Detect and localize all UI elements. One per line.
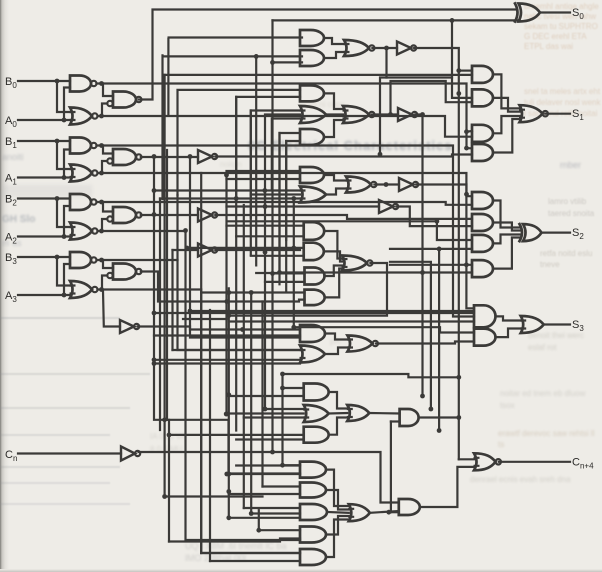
wire N2 output xyxy=(141,214,198,216)
wire C2f out xyxy=(370,511,399,513)
NAND gate U0b second-level xyxy=(107,92,141,108)
node A1 junction xyxy=(62,175,67,180)
node mesh dot4 xyxy=(280,463,285,468)
wire B0 input xyxy=(18,80,70,82)
AND gate C2b xyxy=(300,483,326,498)
AND gate G5a xyxy=(300,325,325,342)
node P0 tap AND3 xyxy=(464,129,469,134)
wire C2e in1 xyxy=(201,552,300,554)
node G4d in1 tap xyxy=(226,290,231,295)
AND gate S1a xyxy=(472,66,493,83)
wire IC input xyxy=(173,249,199,251)
wire S3b in1 xyxy=(294,327,474,332)
AND gate G2a xyxy=(300,85,324,101)
node C1b tap2 xyxy=(224,412,229,417)
node IC input tap xyxy=(185,246,190,251)
wire G2e out xyxy=(415,115,422,397)
wire Cn-bar bus xyxy=(139,452,399,503)
wire IC output xyxy=(215,249,300,251)
wire G2c in1 xyxy=(280,133,301,273)
node Cnbar S1 tap xyxy=(450,18,455,23)
wire C1b in1 xyxy=(265,408,304,410)
node NOR3 output junction xyxy=(99,287,104,292)
svg-text:A1: A1 xyxy=(5,173,17,187)
wire G3b in2 xyxy=(251,193,300,195)
wire S2c out xyxy=(493,235,520,244)
wire riser x167 xyxy=(166,150,168,420)
wire box left riser xyxy=(168,420,170,542)
wire riser x177b xyxy=(176,195,178,260)
svg-text:S3: S3 xyxy=(572,319,584,333)
wire riser x201 xyxy=(200,173,202,553)
wire G1b in2 xyxy=(273,61,303,63)
node branch dot xyxy=(167,433,172,438)
wire S1d in1 xyxy=(467,147,473,149)
NAND gate bit3 xyxy=(70,252,97,268)
node G5b in2 tap xyxy=(152,357,157,362)
svg-text:S1: S1 xyxy=(572,108,584,122)
AND gate C1e xyxy=(400,409,419,426)
inverter ID xyxy=(120,320,139,333)
wire G4a to NOR xyxy=(324,231,342,259)
node mesh dot1 xyxy=(224,299,229,304)
svg-text:B0: B0 xyxy=(5,76,17,90)
wire N1 output xyxy=(141,156,198,158)
wire G2 bus xyxy=(102,231,301,540)
wire G5b in2 xyxy=(154,359,300,361)
node S2d tap2 xyxy=(277,270,282,275)
inverter IC xyxy=(198,244,217,257)
wire S3a out xyxy=(496,316,521,320)
NAND gate bit0 xyxy=(70,76,97,92)
node x439 top xyxy=(437,247,442,252)
wire N3 output xyxy=(141,272,305,302)
wire B3 to NOR xyxy=(57,257,70,286)
wire Cn input xyxy=(18,452,121,454)
wire G2a in1 xyxy=(178,90,301,195)
wire A2 to NAND xyxy=(64,206,70,237)
NOR gate G2d xyxy=(343,106,375,123)
node S1d tap xyxy=(464,146,469,151)
AND gate S3b xyxy=(474,329,496,346)
wire G1b to NOR xyxy=(324,52,344,58)
node tap419 xyxy=(162,417,167,422)
wire C2b to OR xyxy=(326,490,349,510)
wire riser x243 xyxy=(243,205,245,508)
svg-text:Cn+4: Cn+4 xyxy=(572,457,594,471)
node G3b tap3 xyxy=(291,196,296,201)
wire riser x160 xyxy=(159,199,161,431)
AND gate C2e xyxy=(300,549,326,565)
wire C1b to OR xyxy=(329,412,348,415)
wire G3a in2 xyxy=(227,178,301,180)
node ID output tap xyxy=(240,327,245,332)
wire C1c to OR xyxy=(329,418,348,435)
wire G2b in3 xyxy=(272,119,300,190)
wire riser x229 xyxy=(228,288,230,518)
AND gate G1b xyxy=(300,50,324,66)
NAND gate bit2 xyxy=(70,194,97,210)
wire G3a in1 xyxy=(227,171,301,175)
node C2c tap2 xyxy=(226,515,231,520)
NOR gate G5c xyxy=(347,336,378,352)
wire S3a in2 xyxy=(229,320,474,322)
node C1a tap2 xyxy=(226,392,231,397)
wire N1 riser xyxy=(190,157,300,338)
wire A3 to NAND xyxy=(64,264,70,295)
wire G0 bus xyxy=(102,116,473,137)
wire G4c to NOR xyxy=(325,266,343,277)
node B3 junction xyxy=(55,255,60,260)
wire NOR3 out to NAND2 xyxy=(98,276,108,290)
wire IB output xyxy=(215,215,472,219)
AND gate S2c xyxy=(472,235,493,252)
NOR gate bit0 xyxy=(70,108,98,125)
wire C2e to OR xyxy=(326,520,349,558)
node C2f junction xyxy=(386,510,391,515)
inverter G2e xyxy=(398,108,417,121)
wire C2c in2 xyxy=(251,512,300,514)
svg-text:B1: B1 xyxy=(5,136,17,150)
NOR gate bit1 xyxy=(70,165,98,182)
wire sum3 input line2 xyxy=(154,312,474,314)
wire riser x265 xyxy=(264,191,266,410)
wire riser x172 xyxy=(171,250,173,350)
XOR gate S0out xyxy=(515,4,540,22)
wire S0 second input xyxy=(273,19,518,21)
OR gate C1b xyxy=(303,405,329,422)
wire NAND0 out to NAND2 xyxy=(97,84,114,97)
wire A0 input xyxy=(18,119,70,121)
wire G1 bus xyxy=(102,173,475,308)
wire B3 input xyxy=(18,256,70,258)
wire C1e out xyxy=(419,416,459,418)
node G4e out tap xyxy=(226,313,231,318)
node S1 and2 tap xyxy=(456,91,461,96)
AND gate S3a xyxy=(474,305,496,327)
wire S2c in2b xyxy=(390,248,472,250)
wire A0 to NAND xyxy=(64,88,70,121)
NOR gate G4e xyxy=(342,256,373,271)
wire NOR Cn4 top input xyxy=(459,458,474,460)
node mesh dot5 xyxy=(226,472,231,477)
svg-text:A3: A3 xyxy=(5,290,17,304)
wire S1b out xyxy=(493,98,520,112)
AND gate C1c xyxy=(304,427,329,443)
wire C1a in1 xyxy=(283,387,304,389)
wire C2g in2 xyxy=(389,511,399,513)
node C2c tap xyxy=(249,511,254,516)
node B2 junction xyxy=(55,196,60,201)
wire G2b in2 xyxy=(265,115,300,209)
wire G4a in2 xyxy=(236,235,304,237)
wire IF output xyxy=(396,207,472,227)
wire C2c in3 xyxy=(229,517,300,519)
wire NAND2 out to NAND2 xyxy=(97,202,114,212)
node IF tap xyxy=(263,204,268,209)
inverter IA xyxy=(198,150,217,163)
inverter IB xyxy=(198,209,217,222)
node Cnbar riser junction xyxy=(270,450,275,455)
wire riser x431 xyxy=(390,262,431,409)
NAND gate U1b second-level xyxy=(107,149,141,165)
NOR gate bit3 xyxy=(70,281,98,298)
NAND gate bit1 xyxy=(70,138,97,154)
node G2e out tap xyxy=(420,112,425,117)
wire C1c in2 xyxy=(236,438,304,440)
node NOR0 output junction xyxy=(99,114,104,119)
wire G1b in1 xyxy=(163,55,302,57)
NOR gate G3c xyxy=(346,177,377,193)
wire riser x210 xyxy=(209,310,211,561)
node N2 out tap xyxy=(152,212,157,217)
wire S2b out xyxy=(493,223,520,231)
wire G4c in2 xyxy=(265,281,305,283)
wire NOR1 out to NAND2 xyxy=(98,161,108,173)
node x458 tap417 xyxy=(456,415,461,420)
wire C2d in1 xyxy=(259,529,300,531)
wire mesh h465 xyxy=(283,464,301,466)
wire Cn-bar riser xyxy=(271,20,273,452)
wire G1 branch a xyxy=(387,48,473,98)
node C1a tap xyxy=(280,386,285,391)
node N1 junction xyxy=(188,154,193,159)
svg-text:S0: S0 xyxy=(572,7,584,21)
node NAND2 output junction xyxy=(99,200,104,205)
OR gate G2b xyxy=(300,106,327,123)
wire C2g out xyxy=(420,467,474,507)
wire S3 output xyxy=(544,323,570,325)
wire G2c to NOR xyxy=(324,120,343,137)
NAND gate U3b second-level xyxy=(107,264,141,280)
inverter G3d xyxy=(399,178,418,191)
OR gate G3b xyxy=(300,187,327,203)
wire S1c out xyxy=(493,116,520,133)
wire mesh h474 xyxy=(229,473,300,475)
wire C1b in2 xyxy=(226,412,304,414)
inverter G1d xyxy=(397,42,416,55)
wire G4b to NOR xyxy=(326,251,342,261)
wire S2a out xyxy=(493,201,520,228)
wire riser x279 xyxy=(278,133,280,284)
wire S2c in1b xyxy=(227,221,472,240)
wire G3c out xyxy=(374,183,399,185)
node B0 junction xyxy=(55,79,60,84)
node G4c tap xyxy=(263,250,268,255)
wire G1a to NOR xyxy=(324,38,344,44)
AND gate G4b xyxy=(304,243,324,260)
wire NOR0 out to NAND2 xyxy=(98,104,108,117)
wire branch x380 xyxy=(380,78,387,155)
wire G1d out xyxy=(414,48,459,459)
wire riser x439 xyxy=(438,249,440,431)
NOR gate Cn4 xyxy=(474,453,501,470)
node sum3 l2 tap xyxy=(152,311,157,316)
wire N0 output to S0 bus xyxy=(139,10,517,100)
node G4c in3 tap xyxy=(270,271,275,276)
node G2 junction xyxy=(388,112,393,117)
wire C2e in2 xyxy=(210,560,300,562)
wire B2 input xyxy=(18,197,70,199)
wire G2c in2 xyxy=(286,141,300,240)
wire B2 to NOR xyxy=(57,199,70,228)
wire A2 input xyxy=(18,235,70,237)
wire G2d out xyxy=(372,113,398,115)
AND gate G2c xyxy=(300,129,324,145)
wire S2d out xyxy=(493,238,520,269)
wire G1c out xyxy=(372,47,397,49)
wire C1b in3 xyxy=(244,416,304,418)
wire B0 to NOR xyxy=(57,81,70,112)
wire NOR2 out to NAND2 xyxy=(98,219,108,231)
AND gate G1a xyxy=(300,30,324,46)
wire G5c out xyxy=(376,342,474,344)
node G3b tap2 xyxy=(234,196,239,201)
node G4d in1 tap2 xyxy=(249,290,254,295)
node mesh dot8 xyxy=(224,472,229,477)
wire S2 output xyxy=(542,232,571,234)
node x380 tap xyxy=(378,152,383,157)
wire Cn+4 output xyxy=(499,461,570,463)
wire G5a to NOR xyxy=(325,334,348,340)
wire C1a to OR xyxy=(329,392,348,409)
wire C2d in2 xyxy=(169,539,300,542)
node A3 junction xyxy=(62,293,67,298)
wire C2b in2 xyxy=(229,493,300,495)
wire C2a in2 xyxy=(229,472,300,474)
wire G5b in1 xyxy=(173,349,301,351)
wire S3b out xyxy=(496,329,521,338)
wire C2c in1 xyxy=(244,507,300,509)
node x424 bottom xyxy=(420,394,425,399)
AND gate C2a xyxy=(300,462,326,478)
AND gate C2c xyxy=(300,504,327,520)
node NOR2 output junction xyxy=(99,229,104,234)
wire P1 bus xyxy=(102,146,475,317)
wire C2b in1 xyxy=(263,485,301,487)
wire mesh h335 xyxy=(154,334,300,336)
wire A3 input xyxy=(18,294,70,296)
wire G2b to NOR xyxy=(326,113,343,115)
wire riser x168 xyxy=(167,39,169,116)
AND gate G4c xyxy=(305,268,325,285)
node mesh dot7 xyxy=(224,412,229,417)
wire G4b in2 xyxy=(251,255,304,257)
wire G4d to NOR xyxy=(326,269,342,298)
node G3 junction xyxy=(384,182,389,187)
wire branch to C1c xyxy=(169,434,304,436)
wire G3 bus xyxy=(102,290,301,554)
wire G4e out xyxy=(227,263,387,316)
wire A1 input xyxy=(18,176,70,178)
node NOR1 output junction xyxy=(99,171,104,176)
node S2d tap xyxy=(464,262,469,267)
wire riser x251 xyxy=(250,292,252,513)
AND gate C2d xyxy=(300,527,326,543)
wire S1 output xyxy=(545,113,570,115)
wire C1e riser xyxy=(390,422,392,513)
svg-text:Cn: Cn xyxy=(5,449,17,463)
wire G3b in3 xyxy=(160,197,300,199)
node NAND0 output junction xyxy=(99,81,104,86)
AND gate S2a xyxy=(472,192,493,209)
node S1 and1 tap xyxy=(456,68,461,73)
wire G2a in2 xyxy=(236,97,300,199)
node G3b in1 tap xyxy=(152,188,157,193)
node A2 junction xyxy=(62,234,67,239)
wire sum3 input line xyxy=(190,310,474,312)
node x439 bottom xyxy=(437,428,442,433)
wire G4a in1 xyxy=(227,225,304,227)
AND gate G4d xyxy=(305,290,325,306)
inverter IE Cn xyxy=(121,447,140,461)
wire riser x262 xyxy=(261,302,263,487)
wire C2c to OR xyxy=(327,511,349,514)
node g1b in2 tap xyxy=(270,60,275,65)
inverter IF xyxy=(379,200,398,213)
wire S1d out xyxy=(493,119,520,153)
wire G4c in1 xyxy=(256,272,304,274)
wire mesh h374 xyxy=(283,374,459,377)
wire IF input xyxy=(227,205,380,207)
wire G5b in3 xyxy=(154,362,300,364)
wire riser x164 xyxy=(164,75,166,497)
node G3b tap xyxy=(262,188,267,193)
wire S2c in2 xyxy=(187,247,304,249)
wire mesh h319 xyxy=(183,318,227,320)
NOR gate S1out xyxy=(519,105,548,122)
node G3d tap xyxy=(464,192,469,197)
AND gate S1c xyxy=(472,125,493,142)
wire G1 branch b xyxy=(391,81,473,115)
NOR gate G1c xyxy=(344,40,375,56)
wire G3a to NOR xyxy=(324,175,346,181)
node S2c in1 tap xyxy=(435,219,440,224)
svg-text:B3: B3 xyxy=(5,252,17,266)
wire riser x258 xyxy=(258,510,260,530)
AND gate G3a xyxy=(300,167,324,183)
node C2d tap xyxy=(256,528,261,533)
wire riser x293 xyxy=(293,199,295,328)
node S3b tap xyxy=(291,325,296,330)
node G2 tap xyxy=(183,228,188,233)
OR gate G5b xyxy=(300,346,326,363)
AND gate S1b xyxy=(472,89,493,106)
wire B1 to NOR xyxy=(57,141,70,169)
wire C2a in1 xyxy=(236,464,300,466)
wire NAND3 out to NAND2 xyxy=(97,260,114,268)
wire h419 line xyxy=(165,420,229,474)
wire S2d in2 xyxy=(280,271,473,273)
wire S2d in1 xyxy=(390,264,472,266)
node x424 top xyxy=(420,270,425,275)
wire S1a in1 xyxy=(459,69,472,71)
wire mesh h496 xyxy=(165,495,263,497)
XOR gate S2out xyxy=(520,224,542,241)
node B1 junction xyxy=(55,139,60,144)
node G1 junction xyxy=(384,46,389,51)
wire C1a in2 xyxy=(229,395,304,397)
wire C2d to OR xyxy=(326,516,349,535)
wire G4d in1 xyxy=(201,291,304,293)
AND gate S2d xyxy=(472,260,493,277)
node G5b in3 tap xyxy=(152,361,157,366)
wire NOR3 to inverter ID xyxy=(103,291,120,327)
node S2c tap xyxy=(291,246,296,251)
node mesh dot3 xyxy=(280,372,285,377)
AND gate C1a xyxy=(304,384,329,401)
wire riser x236 xyxy=(235,97,237,431)
